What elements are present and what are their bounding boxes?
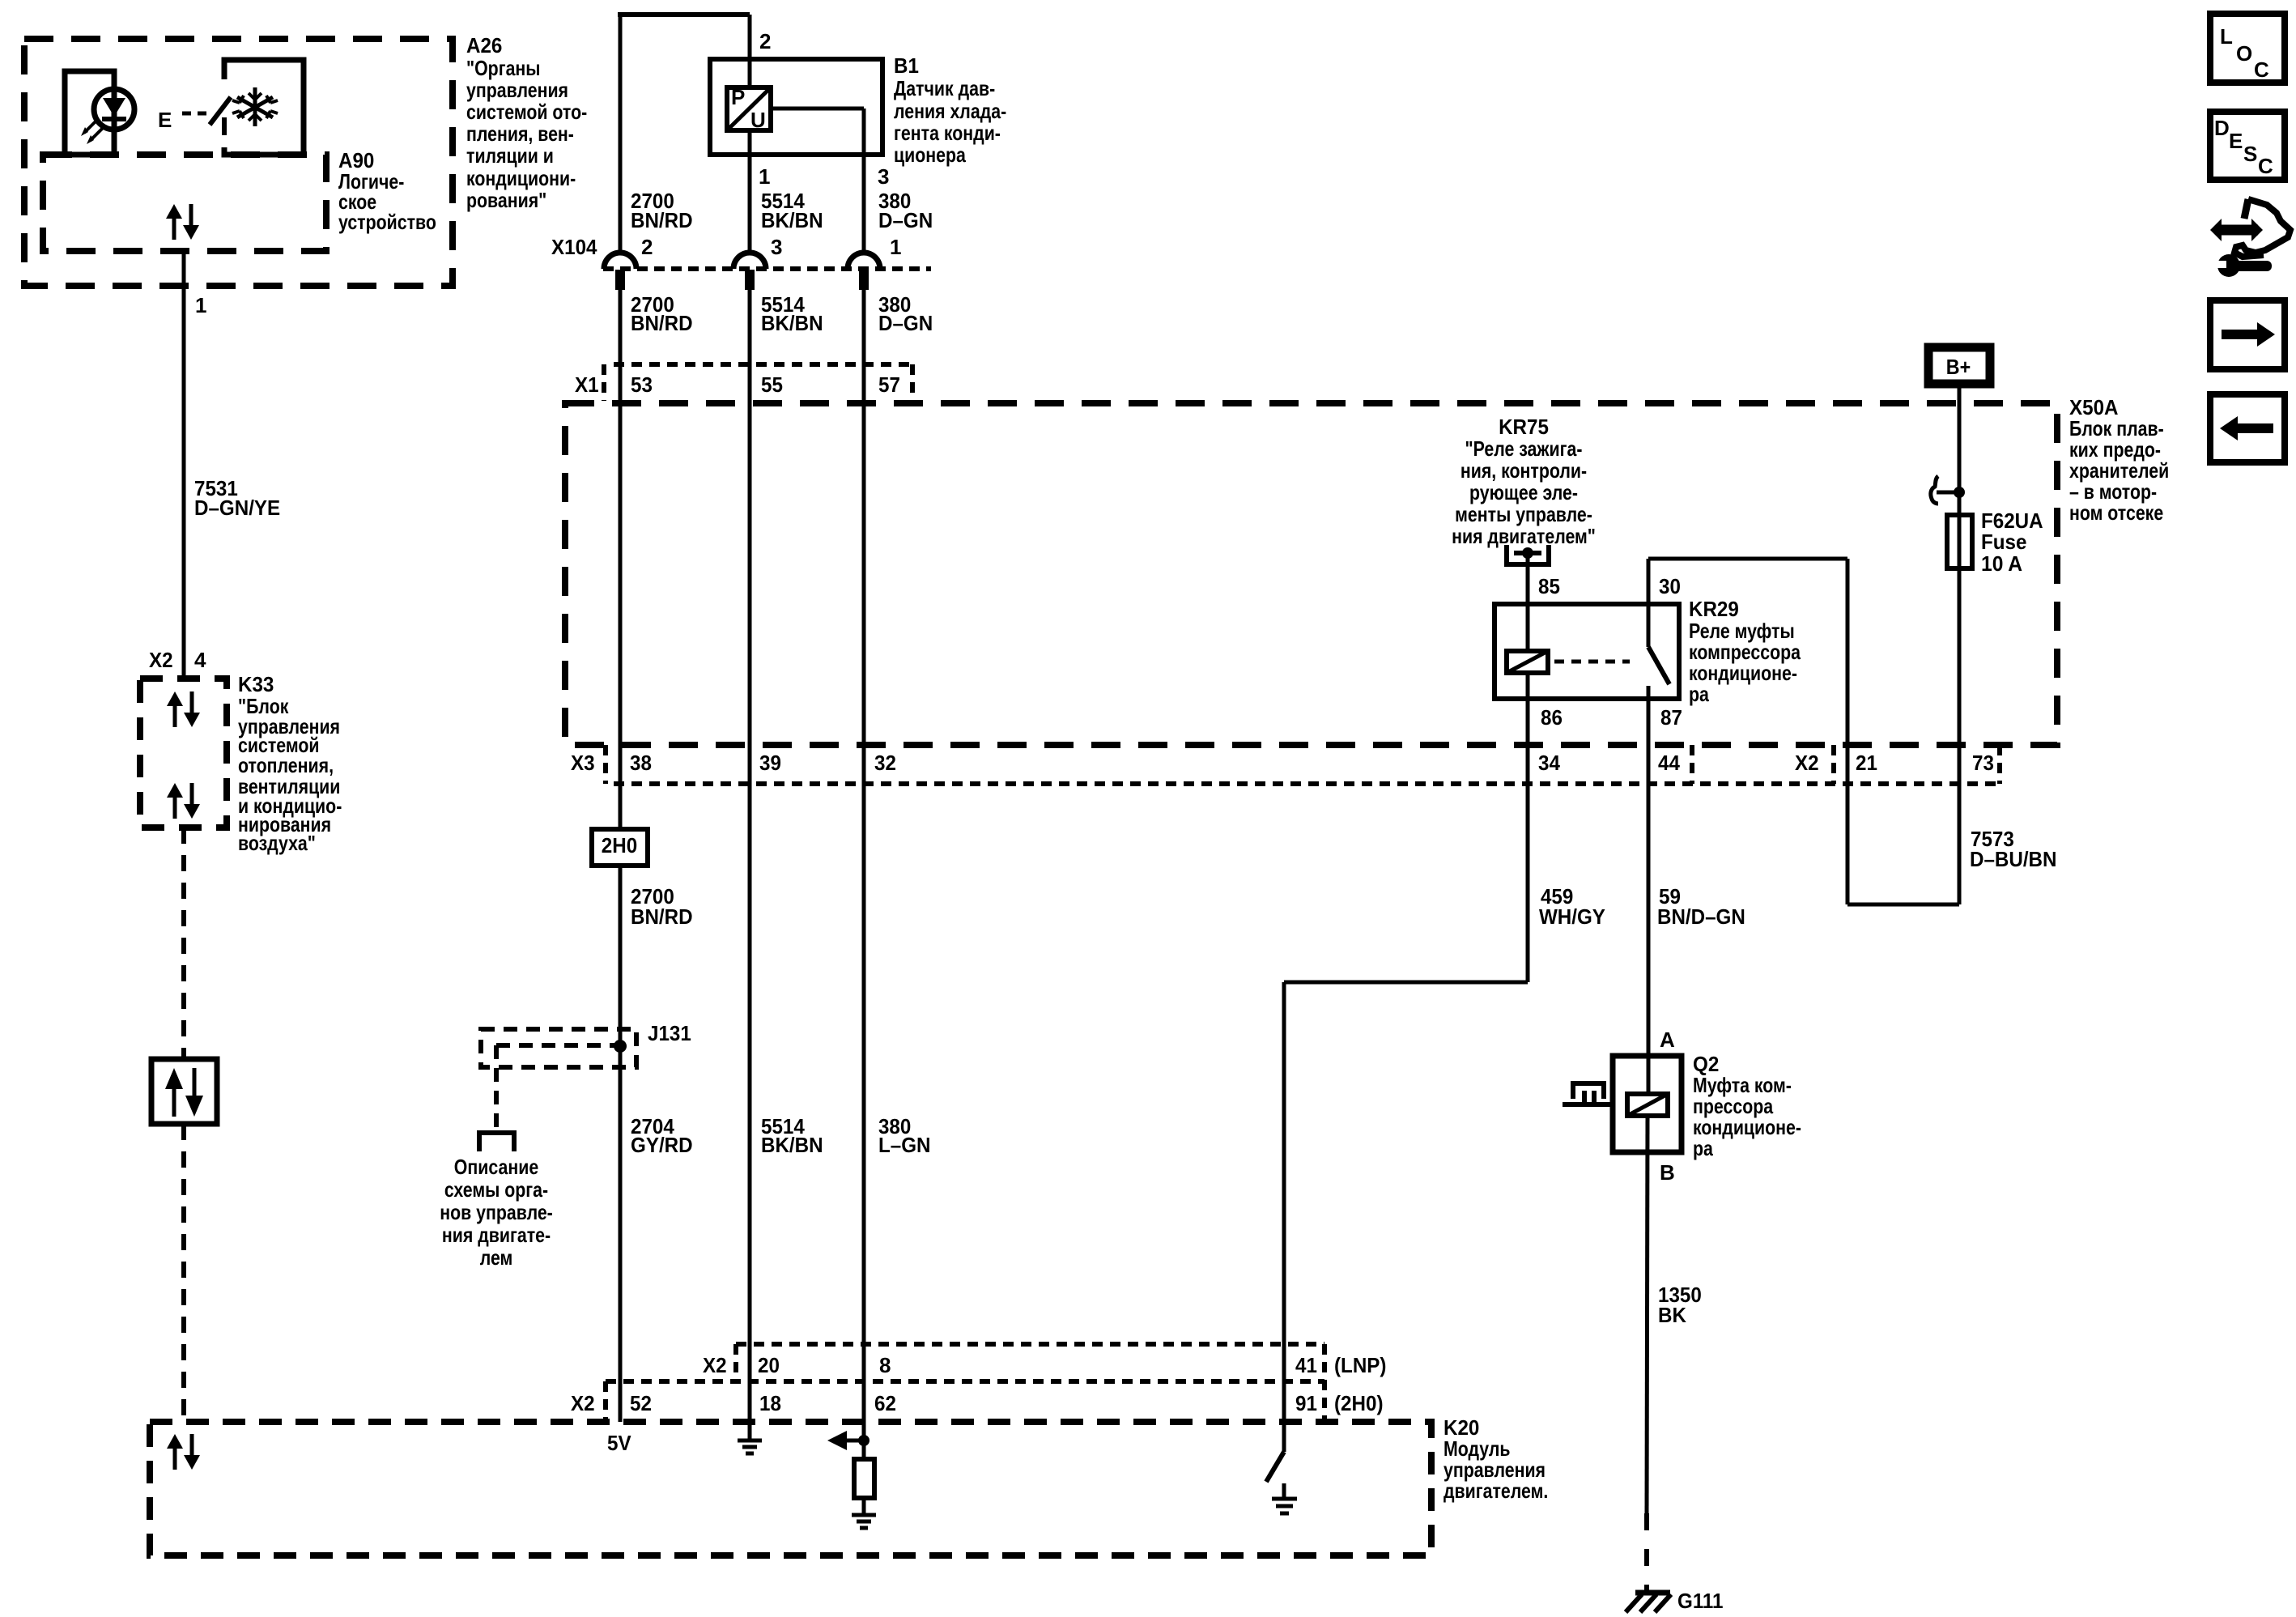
fuse box latch connector [1931,476,1965,504]
legend icon LOC [2210,14,2285,83]
X3 / X2 connector row of fuse box [606,745,2000,784]
Q2 A/C compressor clutch box [1613,1056,1682,1152]
svg-text:44: 44 [1658,751,1680,775]
svg-text:U: U [750,108,766,132]
legend icon DESC [2210,112,2285,180]
svg-text:8: 8 [879,1353,891,1377]
svg-text:X104: X104 [551,235,597,259]
svg-text:ном отсеке: ном отсеке [2069,500,2163,525]
svg-text:ния, контроли-: ния, контроли- [1461,458,1587,483]
legend icon arrow left [2210,394,2285,462]
snowflake icon [232,87,278,126]
svg-text:2H0: 2H0 [602,833,637,857]
K20 bidirectional arrows [167,1434,200,1470]
svg-text:41: 41 [1295,1353,1317,1377]
svg-text:ления хлада-: ления хлада- [894,99,1006,123]
svg-text:BN/RD: BN/RD [631,904,693,929]
svg-text:B+: B+ [1946,355,1971,379]
svg-text:X2: X2 [149,648,173,672]
svg-text:E: E [158,108,172,132]
svg-text:KR75: KR75 [1499,415,1549,439]
wire 2700 through fuse box [619,290,623,829]
svg-text:ра: ра [1693,1136,1713,1160]
wire relay 86 to pin 34 [1526,673,1530,982]
svg-text:X2: X2 [571,1391,595,1415]
svg-text:Описание: Описание [454,1155,538,1179]
svg-text:системой ото-: системой ото- [466,100,587,124]
K33 arrows bottom [167,783,200,819]
svg-text:B: B [1660,1160,1675,1185]
svg-text:L–GN: L–GN [878,1133,931,1157]
svg-text:85: 85 [1538,574,1560,598]
signal arrow and pull resistor pin 62 [827,1422,876,1528]
svg-text:D: D [2214,116,2230,140]
svg-text:X2: X2 [703,1353,727,1377]
svg-text:D–BU/BN: D–BU/BN [1970,847,2057,871]
photodiode sensor of A26 [65,71,134,155]
svg-text:34: 34 [1538,751,1560,775]
svg-text:73: 73 [1972,751,1994,775]
K20 engine control module dashed box [150,1422,1431,1555]
svg-text:L: L [2220,24,2233,49]
svg-text:39: 39 [759,751,781,775]
svg-text:гента конди-: гента конди- [894,121,1001,145]
connector X2 rows of K20 [606,1344,1324,1422]
legend icon arrow right [2210,300,2285,369]
Q2 clutch coil [1627,1094,1668,1116]
svg-text:кондициони-: кондициони- [466,166,576,190]
svg-text:A: A [1660,1028,1675,1052]
svg-text:1: 1 [890,235,901,259]
svg-text:D–GN/YE: D–GN/YE [194,496,280,520]
svg-text:C: C [2258,154,2273,178]
svg-text:P: P [731,85,745,109]
B1 internal wires [750,59,864,254]
KR29 relay coil [1507,604,1630,673]
A/C request switch E with snowflake [158,60,304,155]
engine controls reference bracket [479,1133,514,1151]
K33 arrows top [167,691,200,727]
ground G111 [1626,1593,1671,1612]
svg-text:рования": рования" [466,188,546,212]
dashed wire to K20 [181,1124,186,1422]
wire Q2 pin B 1350 BK [1647,1116,1648,1590]
svg-text:Датчик дав-: Датчик дав- [894,76,995,100]
svg-text:32: 32 [874,751,896,775]
F62UA fuse 10A [1947,515,1972,568]
svg-text:лем: лем [480,1245,513,1270]
svg-text:BK/BN: BK/BN [761,1133,823,1157]
svg-text:устройство: устройство [338,210,436,234]
svg-text:J131: J131 [648,1021,691,1045]
svg-text:D–GN: D–GN [878,208,933,232]
svg-text:воздуха": воздуха" [238,831,316,855]
svg-text:ра: ра [1689,682,1709,706]
wire A90 pin 1 [182,251,186,679]
wire 459 WH/GY [1284,982,1528,1452]
2H0 splice pack box [592,829,648,866]
svg-text:S: S [2243,142,2257,166]
svg-text:62: 62 [874,1391,896,1415]
svg-text:55: 55 [761,372,783,397]
svg-text:двигателем.: двигателем. [1444,1479,1548,1503]
svg-text:"Органы: "Органы [466,56,541,80]
svg-text:управления: управления [466,78,568,102]
svg-text:Fuse: Fuse [1981,530,2026,554]
svg-text:B1: B1 [894,53,919,78]
svg-text:A26: A26 [466,33,502,57]
svg-text:20: 20 [758,1353,780,1377]
svg-text:X1: X1 [575,372,599,397]
svg-text:1: 1 [195,293,206,317]
svg-text:"Реле зажига-: "Реле зажига- [1465,436,1583,461]
svg-text:30: 30 [1659,574,1681,598]
wire 380 through fuse box [862,290,866,1422]
svg-text:4: 4 [194,648,206,672]
svg-text:KR29: KR29 [1689,597,1739,621]
wire 59 BN/D-GN [1647,782,1651,1095]
dashed wire below K33 [181,828,186,1059]
svg-text:схемы орга-: схемы орга- [444,1177,548,1202]
wire 2700 below 2H0 [619,866,623,1422]
svg-text:O: O [2236,41,2252,66]
svg-text:D–GN: D–GN [878,311,933,335]
switch to ground inside K20 pin 91 [1266,1452,1297,1513]
splice J131 [481,1029,636,1133]
wire KR29 pin30 feed from fuse [1648,559,1959,904]
svg-text:(2H0): (2H0) [1334,1391,1384,1415]
svg-text:3: 3 [878,164,889,189]
svg-text:менты управле-: менты управле- [1455,502,1592,526]
B1 P/U transducer symbol [727,87,771,130]
connector X1 row [604,364,912,401]
svg-text:BK/BN: BK/BN [761,311,823,335]
svg-text:ния двигате-: ния двигате- [442,1223,551,1247]
svg-text:нов управле-: нов управле- [440,1200,553,1224]
svg-text:BK/BN: BK/BN [761,208,823,232]
legend icon vehicle with wrench [2210,199,2290,277]
svg-text:ционера: ционера [894,143,966,167]
svg-text:(LNP): (LNP) [1334,1353,1387,1377]
svg-text:ния двигателем": ния двигателем" [1452,524,1596,548]
svg-text:WH/GY: WH/GY [1539,904,1605,929]
svg-text:GY/RD: GY/RD [631,1133,693,1157]
A26 control head dashed box [24,39,453,286]
svg-text:1: 1 [759,164,770,189]
KR29 A/C compressor clutch relay box [1495,604,1679,699]
A90 logic device dashed box [43,155,326,251]
B1 refrigerant pressure sensor box [710,59,882,155]
svg-text:рующее эле-: рующее эле- [1469,480,1578,504]
svg-text:57: 57 [878,372,900,397]
svg-text:87: 87 [1660,705,1682,730]
svg-text:BN/RD: BN/RD [631,311,693,335]
svg-text:BN/D–GN: BN/D–GN [1657,904,1745,929]
svg-text:38: 38 [630,751,652,775]
A90 bidirectional arrows [166,204,199,240]
svg-text:BK: BK [1658,1303,1686,1327]
svg-text:5V: 5V [607,1431,631,1455]
ground inside K20 pin 18 [738,1422,762,1453]
svg-text:G111: G111 [1677,1589,1724,1613]
svg-text:18: 18 [759,1391,781,1415]
wire 5514 through fuse box [748,290,752,1422]
svg-text:C: C [2254,57,2269,82]
KR29 relay switch [1648,559,1669,782]
svg-text:21: 21 [1856,751,1877,775]
svg-text:3: 3 [771,235,782,259]
wire B+ to fuse [1958,388,1962,904]
svg-text:91: 91 [1295,1391,1317,1415]
svg-text:BN/RD: BN/RD [631,208,693,232]
svg-text:2: 2 [641,235,653,259]
Q2 mechanical clutch symbol [1563,1083,1613,1104]
X50A fuse block dashed box [565,403,2057,745]
svg-text:86: 86 [1541,705,1563,730]
svg-text:52: 52 [630,1391,652,1415]
B+ battery feed terminal [1928,347,1990,384]
KR75 ignition relay terminal symbol [1507,545,1549,604]
B1 top interconnect wire [618,15,750,254]
svg-text:10 A: 10 A [1981,551,2022,576]
svg-text:2: 2 [759,29,771,53]
data link box with arrows [151,1059,217,1124]
svg-text:K33: K33 [238,672,274,696]
connector X104 [603,253,931,290]
svg-text:E: E [2229,129,2243,153]
svg-text:пления, вен-: пления, вен- [466,121,574,146]
svg-text:X3: X3 [571,751,595,775]
K33 HVAC control module dashed box [140,679,227,828]
svg-text:тиляции и: тиляции и [466,143,554,168]
svg-text:X2: X2 [1795,751,1819,775]
svg-text:53: 53 [631,372,653,397]
